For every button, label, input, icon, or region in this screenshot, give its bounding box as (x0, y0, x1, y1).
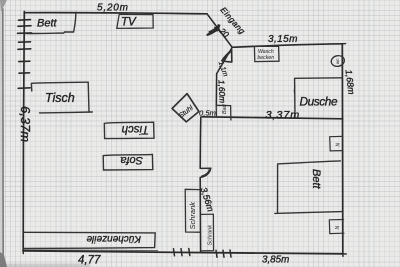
small table box 2 (upside down Tisch) (104, 122, 154, 138)
wall left (6.37m) (23, 12, 24, 252)
closet living (Schrank) (185, 189, 199, 232)
stool diamond (Stuhl) (172, 94, 199, 122)
wall bathroom top (3.15m) (232, 44, 342, 48)
svg-text:3,56m: 3,56m (199, 186, 216, 213)
tv box (117, 14, 153, 28)
wall top (5.20m) (25, 13, 207, 14)
svg-text:Sofa: Sofa (120, 154, 143, 166)
svg-text:Bett: Bett (37, 18, 58, 30)
svg-text:Bad: Bad (222, 103, 228, 114)
svg-text:0,5m: 0,5m (199, 108, 216, 117)
svg-text:3,15m: 3,15m (268, 34, 298, 45)
svg-text:becken: becken (257, 55, 274, 61)
svg-text:Wasch: Wasch (258, 49, 274, 55)
wall corner overshoots (23, 44, 346, 257)
wall bottom double stroke near kitchen (24, 249, 159, 252)
paper edge shadow left (0, 0, 90, 267)
svg-text:1,68m: 1,68m (344, 69, 357, 96)
hall small box (216, 105, 231, 120)
wall bathroom bottom (3.37m) (202, 117, 343, 119)
svg-text:Tisch: Tisch (45, 91, 75, 105)
svg-text:Dusche: Dusche (300, 95, 338, 109)
svg-text:4,77: 4,77 (78, 255, 101, 267)
svg-text:N: N (336, 143, 342, 147)
svg-text:Tisch: Tisch (122, 123, 149, 135)
nightstand 1 (330, 136, 343, 151)
nightstand 2 (329, 220, 344, 234)
svg-text:6,37m: 6,37m (18, 106, 33, 142)
door bedroom leaf+arc (201, 168, 211, 177)
wall bottom (4.77+3.85) (23, 251, 344, 254)
closet bedroom box (201, 214, 213, 251)
svg-text:1,60m: 1,60m (217, 80, 228, 104)
door entrance leaf+arc (208, 26, 220, 35)
table box (Tisch) (31, 82, 92, 113)
svg-text:N: N (335, 226, 341, 230)
toilet oval (330, 54, 345, 67)
wall right outer (341, 44, 344, 254)
svg-text:5,20m: 5,20m (97, 3, 129, 14)
wall hall diagonal (1.1m) (217, 47, 233, 74)
sofa box (103, 154, 153, 170)
ticks left wall (18, 20, 32, 89)
door bathroom fan (222, 50, 232, 63)
svg-text:wc: wc (335, 58, 340, 64)
sink box (Waschbecken) (254, 46, 279, 61)
svg-text:Schrank: Schrank (188, 201, 197, 230)
bed box top-left (Bett) (24, 12, 76, 33)
svg-text:TV: TV (121, 17, 137, 29)
svg-text:Schrank: Schrank (208, 224, 214, 246)
ticks bottom wall group2 (216, 250, 231, 257)
svg-text:3,37m: 3,37m (266, 110, 301, 122)
kitchen box (Kuechenzeile) (24, 232, 155, 248)
wall hall vertical (1.60m) (215, 74, 217, 105)
svg-text:Küchenzeile: Küchenzeile (86, 233, 141, 244)
wall entrance diagonal (207, 14, 232, 48)
svg-text:Bett: Bett (310, 169, 322, 190)
svg-text:3,85m: 3,85m (262, 255, 289, 266)
ticks bottom wall group1 (174, 249, 190, 256)
wall bedroom left (3.56m) (199, 117, 202, 252)
bed box bedroom (275, 161, 342, 214)
svg-text:1,20: 1,20 (213, 22, 231, 40)
shower box (Dusche) (294, 78, 341, 118)
